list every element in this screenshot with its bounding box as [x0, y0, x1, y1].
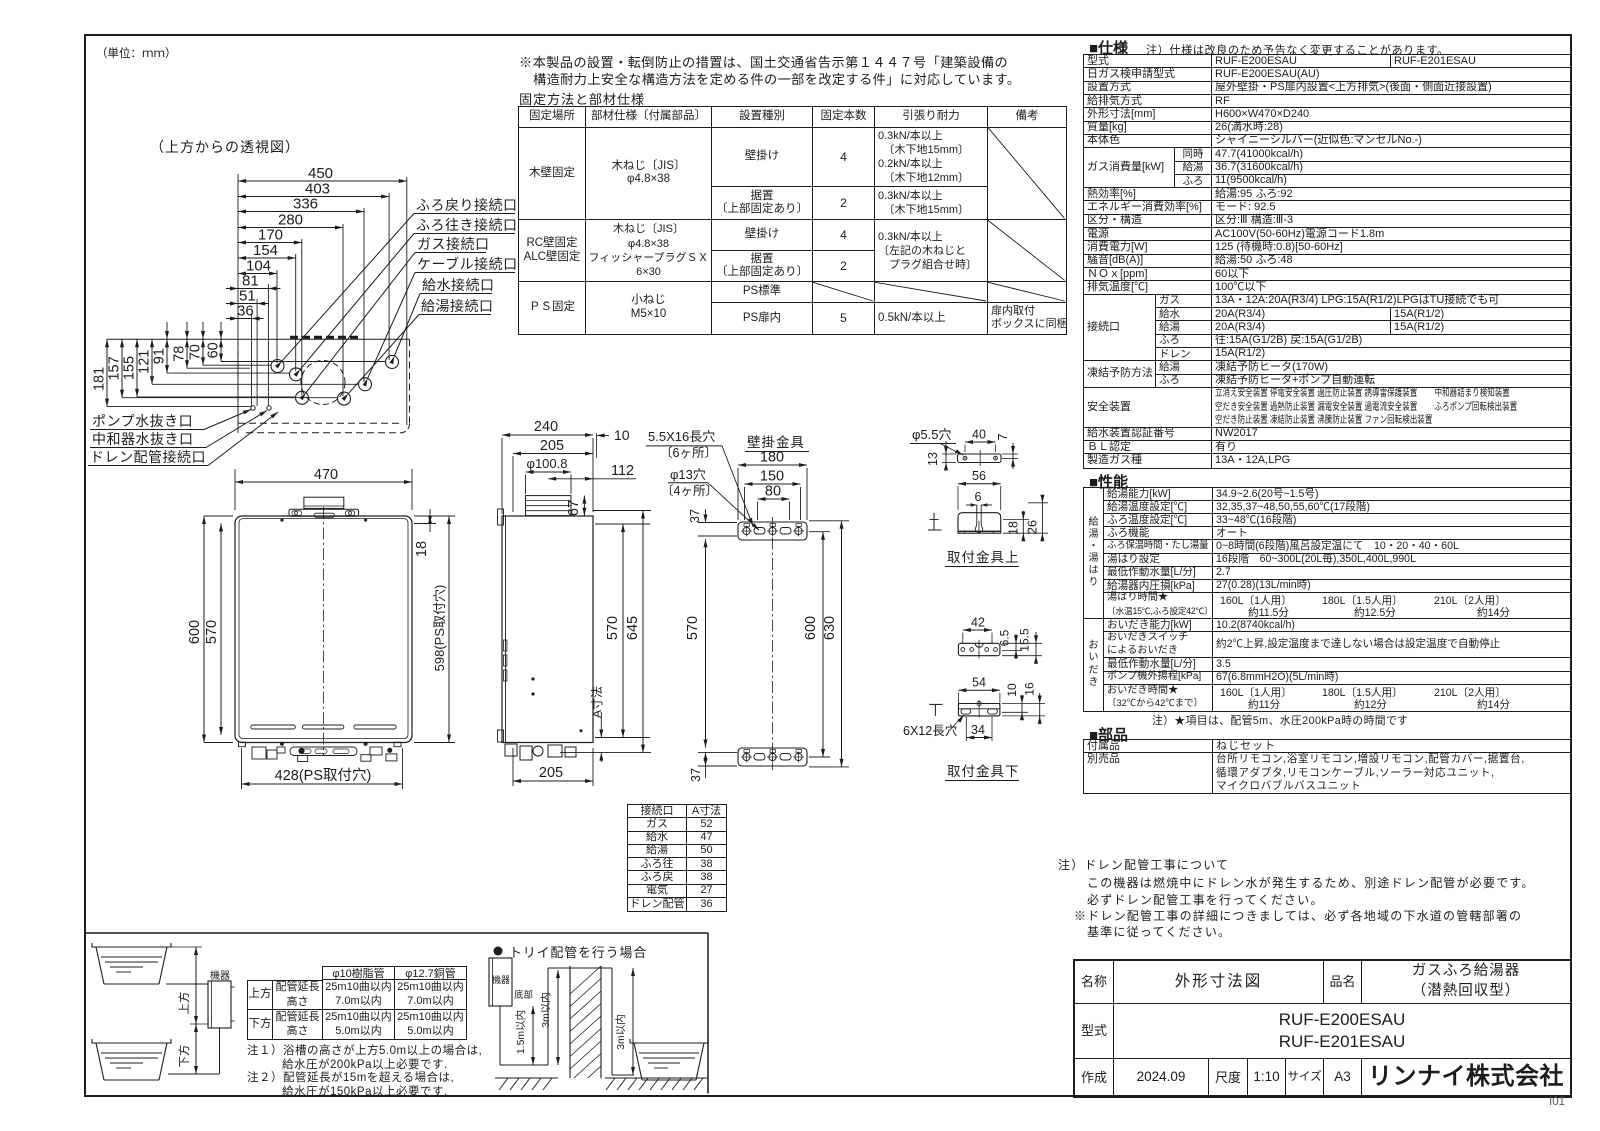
- side view dim φ100.8: [526, 456, 572, 494]
- wall bracket dim 80: [758, 484, 790, 521]
- dim 6: [966, 490, 992, 507]
- label ふろ往き接続口: [294, 217, 518, 377]
- upper bathtub: [92, 943, 171, 984]
- svg-text:470: 470: [314, 467, 338, 483]
- svg-text:37: 37: [689, 768, 703, 782]
- svg-text:機器: 機器: [210, 969, 230, 982]
- svg-text:54: 54: [972, 676, 986, 690]
- wall bracket dim 37 bottom: [689, 753, 737, 782]
- dim 3m以内 right: [614, 968, 635, 1075]
- svg-text:600: 600: [803, 616, 819, 640]
- side view body: [498, 509, 594, 743]
- svg-text:ふろ戻り接続口: ふろ戻り接続口: [416, 197, 518, 213]
- svg-text:下方: 下方: [177, 1045, 191, 1068]
- dim 6.5: [998, 629, 1023, 658]
- wall bracket dim 180: [738, 450, 807, 521]
- svg-text:10: 10: [1005, 683, 1019, 697]
- label 6X12長穴: [903, 715, 964, 738]
- top view height dim 60: [206, 339, 386, 361]
- top view width dim 81: [226, 273, 280, 291]
- installation regulation note: [519, 52, 1008, 71]
- label 取付金具上: [945, 550, 1020, 567]
- top view width dim 280: [238, 212, 343, 230]
- svg-text:15.5: 15.5: [1018, 628, 1032, 652]
- spec table: [1083, 54, 1572, 469]
- top view exhaust duct circle: [301, 361, 345, 405]
- svg-text:取付金具上: 取付金具上: [947, 550, 1020, 565]
- svg-text:630: 630: [822, 616, 838, 640]
- front view height dim 600: [187, 516, 233, 743]
- performance footnote: [1152, 712, 1408, 728]
- svg-text:6.5: 6.5: [998, 629, 1012, 646]
- upper fixture corner mark: [928, 513, 942, 530]
- svg-text:給水接続口: 給水接続口: [422, 277, 495, 293]
- front view vent slots: [251, 725, 396, 729]
- top view wall reference line: [107, 338, 410, 340]
- svg-text:3m以内: 3m以内: [614, 1014, 627, 1050]
- svg-text:6X12長穴: 6X12長穴: [903, 723, 958, 738]
- svg-text:給湯接続口: 給湯接続口: [421, 298, 494, 314]
- svg-text:205: 205: [540, 438, 564, 454]
- top view width dim 154: [238, 242, 296, 260]
- upper fixture plate small: [958, 450, 1002, 466]
- performance table: [1083, 487, 1572, 712]
- svg-text:170: 170: [258, 227, 283, 244]
- top view neutralizer drain hole: [267, 406, 271, 410]
- svg-text:598(PS取付穴): 598(PS取付穴): [432, 585, 447, 672]
- top view width dim 51: [226, 288, 269, 306]
- top view width dim 403: [238, 181, 389, 199]
- top view pump drain hole: [251, 406, 255, 410]
- dim 34: [966, 717, 992, 741]
- front view width dim 470: [235, 467, 412, 510]
- wall bracket title: [745, 435, 809, 452]
- svg-text:壁掛金具: 壁掛金具: [747, 435, 805, 450]
- top view ケーブル connector: [359, 378, 372, 391]
- parts section header: [1089, 724, 1128, 745]
- sheet number: [1549, 1096, 1565, 1108]
- front view center line: [323, 507, 325, 756]
- torii pipe: [500, 968, 634, 1075]
- svg-text:トリイ配管を行う場合: トリイ配管を行う場合: [509, 945, 647, 960]
- top view height dim 155: [122, 339, 297, 397]
- label φ5.5穴: [910, 427, 963, 455]
- svg-text:機器: 機器: [492, 974, 510, 985]
- wall bracket dim 570: [685, 539, 708, 747]
- svg-text:φ5.5穴: φ5.5穴: [912, 427, 952, 442]
- top view ふろ戻り connector: [271, 360, 284, 373]
- svg-text:7: 7: [996, 433, 1010, 440]
- label 給湯接続口: [342, 298, 494, 401]
- side view A dim label: [590, 686, 608, 762]
- top view width dim 336: [238, 196, 364, 214]
- svg-text:450: 450: [308, 165, 333, 182]
- heater unit box left figure: [208, 969, 235, 1028]
- svg-text:5.5X16長穴: 5.5X16長穴: [648, 429, 715, 444]
- unit note: [96, 45, 177, 61]
- svg-text:570: 570: [685, 616, 701, 640]
- svg-text:570: 570: [204, 620, 220, 644]
- svg-text:112: 112: [611, 463, 634, 479]
- top view ふろ往き connector: [290, 368, 303, 381]
- side view dim 205 top: [513, 438, 593, 512]
- svg-text:150: 150: [760, 469, 784, 485]
- label ふろ戻り接続口: [275, 197, 518, 369]
- spec section header: [1089, 37, 1128, 58]
- svg-text:428(PS取付穴): 428(PS取付穴): [275, 767, 372, 784]
- svg-text:42: 42: [971, 616, 985, 630]
- svg-text:ドレン配管接続口: ドレン配管接続口: [90, 449, 206, 465]
- label 中和器水抜き口: [90, 411, 267, 448]
- top view ガス connector: [296, 391, 309, 404]
- top view body dashed outline: [238, 340, 410, 433]
- side view dim 240: [502, 419, 593, 514]
- top view title: [150, 139, 300, 155]
- side view bottom fittings: [505, 744, 576, 760]
- svg-text:26: 26: [1026, 520, 1040, 534]
- svg-text:ガス接続口: ガス接続口: [417, 236, 490, 252]
- fixing method and parts spec table: [518, 106, 1067, 335]
- dim 15.5: [1002, 628, 1042, 664]
- label 取付金具下: [945, 764, 1020, 781]
- dim 18 fixture: [1003, 511, 1029, 541]
- svg-text:（上方からの透視図）: （上方からの透視図）: [150, 139, 300, 155]
- wall bracket dim 630: [809, 521, 849, 767]
- performance section header: [1089, 471, 1128, 492]
- top view height dim 78: [172, 339, 251, 368]
- svg-text:ふろ往き接続口: ふろ往き接続口: [416, 217, 518, 233]
- top view 給水 connector: [386, 356, 399, 369]
- wall bracket upper plate: [738, 522, 807, 540]
- svg-text:取付金具下: 取付金具下: [947, 764, 1020, 779]
- svg-text:70: 70: [188, 344, 204, 360]
- svg-text:40: 40: [972, 428, 986, 442]
- dim 26 fixture: [1003, 495, 1048, 541]
- dim 下方: [177, 1024, 198, 1074]
- heater unit box right figure: [489, 958, 512, 1006]
- top view extension lines: [238, 174, 407, 433]
- dim 42: [963, 616, 992, 645]
- svg-text:80: 80: [765, 484, 781, 500]
- label ポンプ水抜き口: [90, 410, 251, 430]
- front view bottom fittings: [239, 742, 402, 762]
- label ドレン配管接続口: [88, 412, 278, 466]
- side view dots: [531, 677, 534, 695]
- top view width dim 450: [238, 165, 407, 183]
- label ガス接続口: [300, 236, 490, 400]
- top view 給湯 connector: [338, 392, 351, 405]
- svg-text:240: 240: [534, 419, 558, 435]
- svg-text:底部: 底部: [514, 989, 533, 1001]
- front view height dim 570: [204, 524, 223, 736]
- svg-text:336: 336: [293, 196, 318, 213]
- side view dim 67: [566, 496, 586, 516]
- label 給水接続口: [390, 277, 495, 364]
- title block: [1073, 959, 1572, 1098]
- svg-text:A寸法: A寸法: [590, 686, 604, 718]
- A-dimension table: [627, 804, 727, 912]
- side view dim 10: [597, 427, 630, 458]
- torii tower hatched: [570, 966, 602, 1079]
- top view reference arrows: [165, 322, 223, 339]
- svg-text:181: 181: [92, 367, 108, 391]
- front view top screws: [280, 518, 367, 521]
- svg-text:6: 6: [975, 490, 982, 504]
- front view body: [235, 516, 412, 743]
- svg-text:φ13穴: φ13穴: [670, 467, 706, 482]
- top view height dim 121: [137, 339, 359, 384]
- side view dim 112: [548, 463, 636, 481]
- svg-text:〔4ヶ所〕: 〔4ヶ所〕: [661, 484, 718, 498]
- svg-text:上方: 上方: [177, 992, 191, 1015]
- dim 54: [958, 676, 1000, 705]
- upper mounting fixture section: [958, 505, 1001, 533]
- wall bracket center line: [772, 517, 774, 770]
- front view dim 598(PS取付穴): [414, 516, 455, 743]
- top view width dim 104: [238, 258, 277, 276]
- dim 10 fixture: [1002, 683, 1028, 720]
- front view exhaust flange: [289, 497, 359, 517]
- dim 16 fixture: [1002, 682, 1045, 724]
- svg-text:60: 60: [206, 342, 222, 358]
- svg-text:13: 13: [926, 452, 940, 466]
- top view height dim 91: [152, 339, 290, 373]
- side view dim 205 bottom: [513, 748, 593, 786]
- svg-text:ポンプ水抜き口: ポンプ水抜き口: [92, 413, 193, 429]
- front view dim 428(PS取付穴): [242, 748, 403, 789]
- top view width dim 170: [238, 227, 302, 245]
- bottom section divider: [85, 933, 708, 1094]
- drain piping notes: [1058, 856, 1229, 873]
- svg-text:中和器水抜き口: 中和器水抜き口: [92, 431, 194, 447]
- wall bracket dim 600: [803, 532, 830, 757]
- piping notes: [247, 1042, 482, 1058]
- svg-text:φ100.8: φ100.8: [527, 456, 568, 471]
- svg-text:67: 67: [566, 500, 582, 516]
- right bathtub: [630, 1039, 708, 1080]
- svg-text:78: 78: [172, 346, 188, 362]
- svg-text:157: 157: [107, 356, 123, 380]
- ground hatching: [495, 1078, 708, 1090]
- svg-text:155: 155: [122, 356, 138, 380]
- svg-text:1.5m以内: 1.5m以内: [514, 1010, 527, 1054]
- top view height dim 157: [107, 339, 338, 398]
- svg-text:180: 180: [760, 450, 784, 466]
- svg-text:570: 570: [605, 616, 621, 640]
- top view width dim 36: [226, 303, 264, 321]
- svg-text:34: 34: [971, 723, 985, 737]
- svg-text:3m以内: 3m以内: [539, 992, 552, 1028]
- svg-text:16: 16: [1023, 682, 1037, 696]
- svg-text:645: 645: [625, 616, 641, 640]
- lower bathtub: [92, 1039, 171, 1080]
- label 5.5X16長穴(6ヶ所): [646, 429, 753, 526]
- dim 上方: [171, 947, 209, 1024]
- lower fixture plate B: [958, 700, 1000, 718]
- fixing method table title: [519, 89, 645, 108]
- parts table: [1083, 739, 1572, 794]
- label φ13穴(4ヶ所): [661, 467, 759, 530]
- front view dim 18: [414, 509, 436, 557]
- pipe unit to tub2: [168, 1028, 220, 1074]
- pipe tub1 to unit: [166, 983, 208, 985]
- dim 1.5m以内: [514, 1006, 535, 1065]
- svg-text:205: 205: [539, 765, 563, 781]
- svg-text:10: 10: [614, 427, 630, 443]
- lower fixture corner mark: [929, 704, 942, 716]
- dim 13: [926, 441, 956, 471]
- dim 3m以内 left: [539, 970, 560, 1065]
- side view dim 645: [560, 511, 651, 753]
- side view door slots: [504, 640, 507, 681]
- piping length table: [247, 966, 467, 1040]
- svg-text:600: 600: [187, 620, 203, 644]
- svg-text:ケーブル接続口: ケーブル接続口: [417, 256, 518, 272]
- top view height dim 181: [92, 339, 252, 406]
- svg-text:〔6ヶ所〕: 〔6ヶ所〕: [660, 446, 717, 460]
- dim 56: [958, 469, 1001, 510]
- svg-text:37: 37: [688, 509, 702, 523]
- fixing table diagonal slashes: [813, 128, 1065, 301]
- label 底部: [512, 989, 533, 1006]
- svg-text:121: 121: [137, 350, 153, 374]
- side view exhaust duct: [526, 496, 572, 516]
- label ケーブル接続口: [363, 256, 518, 387]
- top view exhaust flange (dashed bold): [290, 336, 359, 339]
- top view height dim 70: [188, 339, 272, 365]
- svg-text:154: 154: [253, 242, 278, 259]
- dim 40: [965, 428, 996, 453]
- side view dim 570 right: [595, 524, 650, 738]
- wall bracket dim 150: [745, 469, 801, 521]
- wall bracket lower plate: [738, 748, 807, 766]
- svg-text:56: 56: [972, 469, 986, 483]
- lower fixture plate A: [958, 640, 1000, 659]
- dim 7: [996, 433, 1018, 469]
- torii piping title: [494, 945, 648, 960]
- wall bracket dim 37 top: [688, 509, 737, 536]
- svg-text:18: 18: [414, 541, 430, 557]
- svg-text:91: 91: [152, 348, 168, 364]
